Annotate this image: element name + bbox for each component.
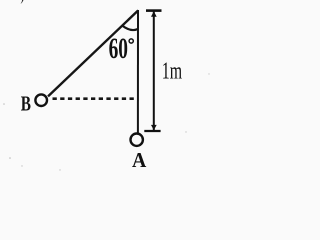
dimension bottom arrowhead (down) <box>151 125 157 130</box>
paper background <box>0 0 226 175</box>
stray comma mark top-left <box>21 0 24 4</box>
dimension top arrowhead (up) <box>151 11 157 16</box>
degree symbol of 60° <box>129 39 133 43</box>
svg-text:1m: 1m <box>162 58 183 84</box>
ball A (circle) <box>131 134 143 146</box>
ball B (small circle) <box>35 94 47 106</box>
angle arc at pivot <box>122 26 137 30</box>
string segment B to pivot (line at 60°) <box>48 10 138 96</box>
svg-text:A: A <box>132 148 147 172</box>
dimension top cap <box>146 9 162 12</box>
dimension bottom cap <box>144 130 160 132</box>
faint scan speckles <box>9 157 11 159</box>
svg-text:60: 60 <box>109 32 128 65</box>
dashed horizontal line B to string <box>53 97 138 100</box>
string segment pivot to A (vertical) <box>137 10 139 133</box>
svg-text:B: B <box>21 91 31 115</box>
dimension line vertical <box>153 12 155 131</box>
